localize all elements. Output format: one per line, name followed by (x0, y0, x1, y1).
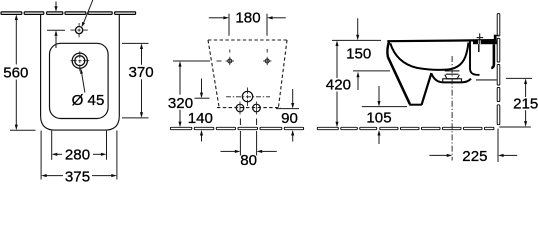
dimension 90 (276, 89, 299, 142)
dimension 180 (209, 14, 286, 36)
svg-text:80: 80 (240, 152, 257, 169)
deck section bar (473, 40, 497, 44)
floor line (side view) (317, 127, 494, 129)
floor line (rear view) (170, 127, 303, 129)
tap hole (plan view) (71, 23, 88, 37)
leader line to Ø45 label (80, 68, 85, 93)
dimension 375 (41, 131, 117, 180)
bidet rim (side view) (387, 40, 495, 41)
svg-text:180: 180 (235, 9, 260, 26)
svg-text:105: 105 (366, 109, 391, 126)
svg-text:375: 375 (65, 168, 90, 182)
fixing bolt hole right (bottom) (253, 102, 261, 115)
dimension 150 (332, 18, 390, 90)
fixing hole centerline dashes (217, 49, 268, 61)
bidet front face (side view) (387, 41, 389, 57)
dimension 320 (173, 61, 210, 122)
svg-text:150: 150 (346, 46, 371, 63)
dimension 225 (429, 129, 517, 162)
svg-text:280: 280 (65, 146, 90, 163)
pedestal bottom (409, 104, 422, 106)
dimension 420 (336, 45, 338, 122)
svg-text:215: 215 (513, 96, 538, 113)
tap hole marker on deck (477, 33, 484, 44)
dimension 80 (221, 119, 277, 156)
drain centerline (451, 56, 453, 161)
svg-text:225: 225 (462, 148, 487, 165)
dimension 560 (10, 19, 36, 130)
bowl interior curve (390, 43, 468, 70)
drain hole Ø45 (plan view) (71, 51, 90, 71)
wall section line (plan view) (1, 12, 136, 15)
leader line to tap hole (82, 0, 93, 27)
bidet outer body (plan view) (41, 14, 120, 130)
fixing hole right (263, 57, 271, 65)
pedestal rear edge (422, 73, 432, 105)
drain flange (443, 71, 462, 82)
bidet rear outline (dashed trapezoid) (208, 40, 287, 108)
back mounting bracket (491, 35, 498, 68)
fixing bolt hole left (bottom) (236, 102, 244, 115)
dimension wall-to-tap-hole (unlabelled) (47, 2, 65, 49)
rear shelf line (476, 79, 497, 81)
dimension 140 (195, 79, 210, 142)
tap sleeve below deck (478, 44, 480, 52)
svg-text:420: 420 (326, 77, 351, 94)
dimension 215 (506, 78, 532, 122)
svg-text:370: 370 (129, 64, 154, 81)
bidet front underside / pedestal front (388, 57, 410, 104)
svg-text:560: 560 (3, 64, 28, 81)
svg-text:140: 140 (188, 110, 213, 127)
dimension 370 (122, 43, 149, 118)
dimension 280 (52, 131, 107, 160)
fixing hole left (226, 57, 234, 65)
bowl rear channel wall (470, 42, 480, 75)
bidet inner rim (plan view) (50, 43, 109, 118)
dimension 105 (362, 86, 407, 144)
wall line (side view) (497, 14, 500, 125)
svg-text:Ø 45: Ø 45 (72, 92, 105, 109)
svg-text:90: 90 (281, 110, 298, 127)
drain hole (rear view) (226, 88, 270, 107)
underside rear curve (431, 74, 471, 83)
